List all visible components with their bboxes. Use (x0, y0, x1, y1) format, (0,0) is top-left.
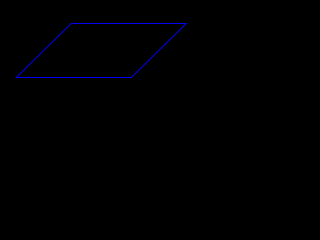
parallelogram outline (16, 24, 186, 78)
